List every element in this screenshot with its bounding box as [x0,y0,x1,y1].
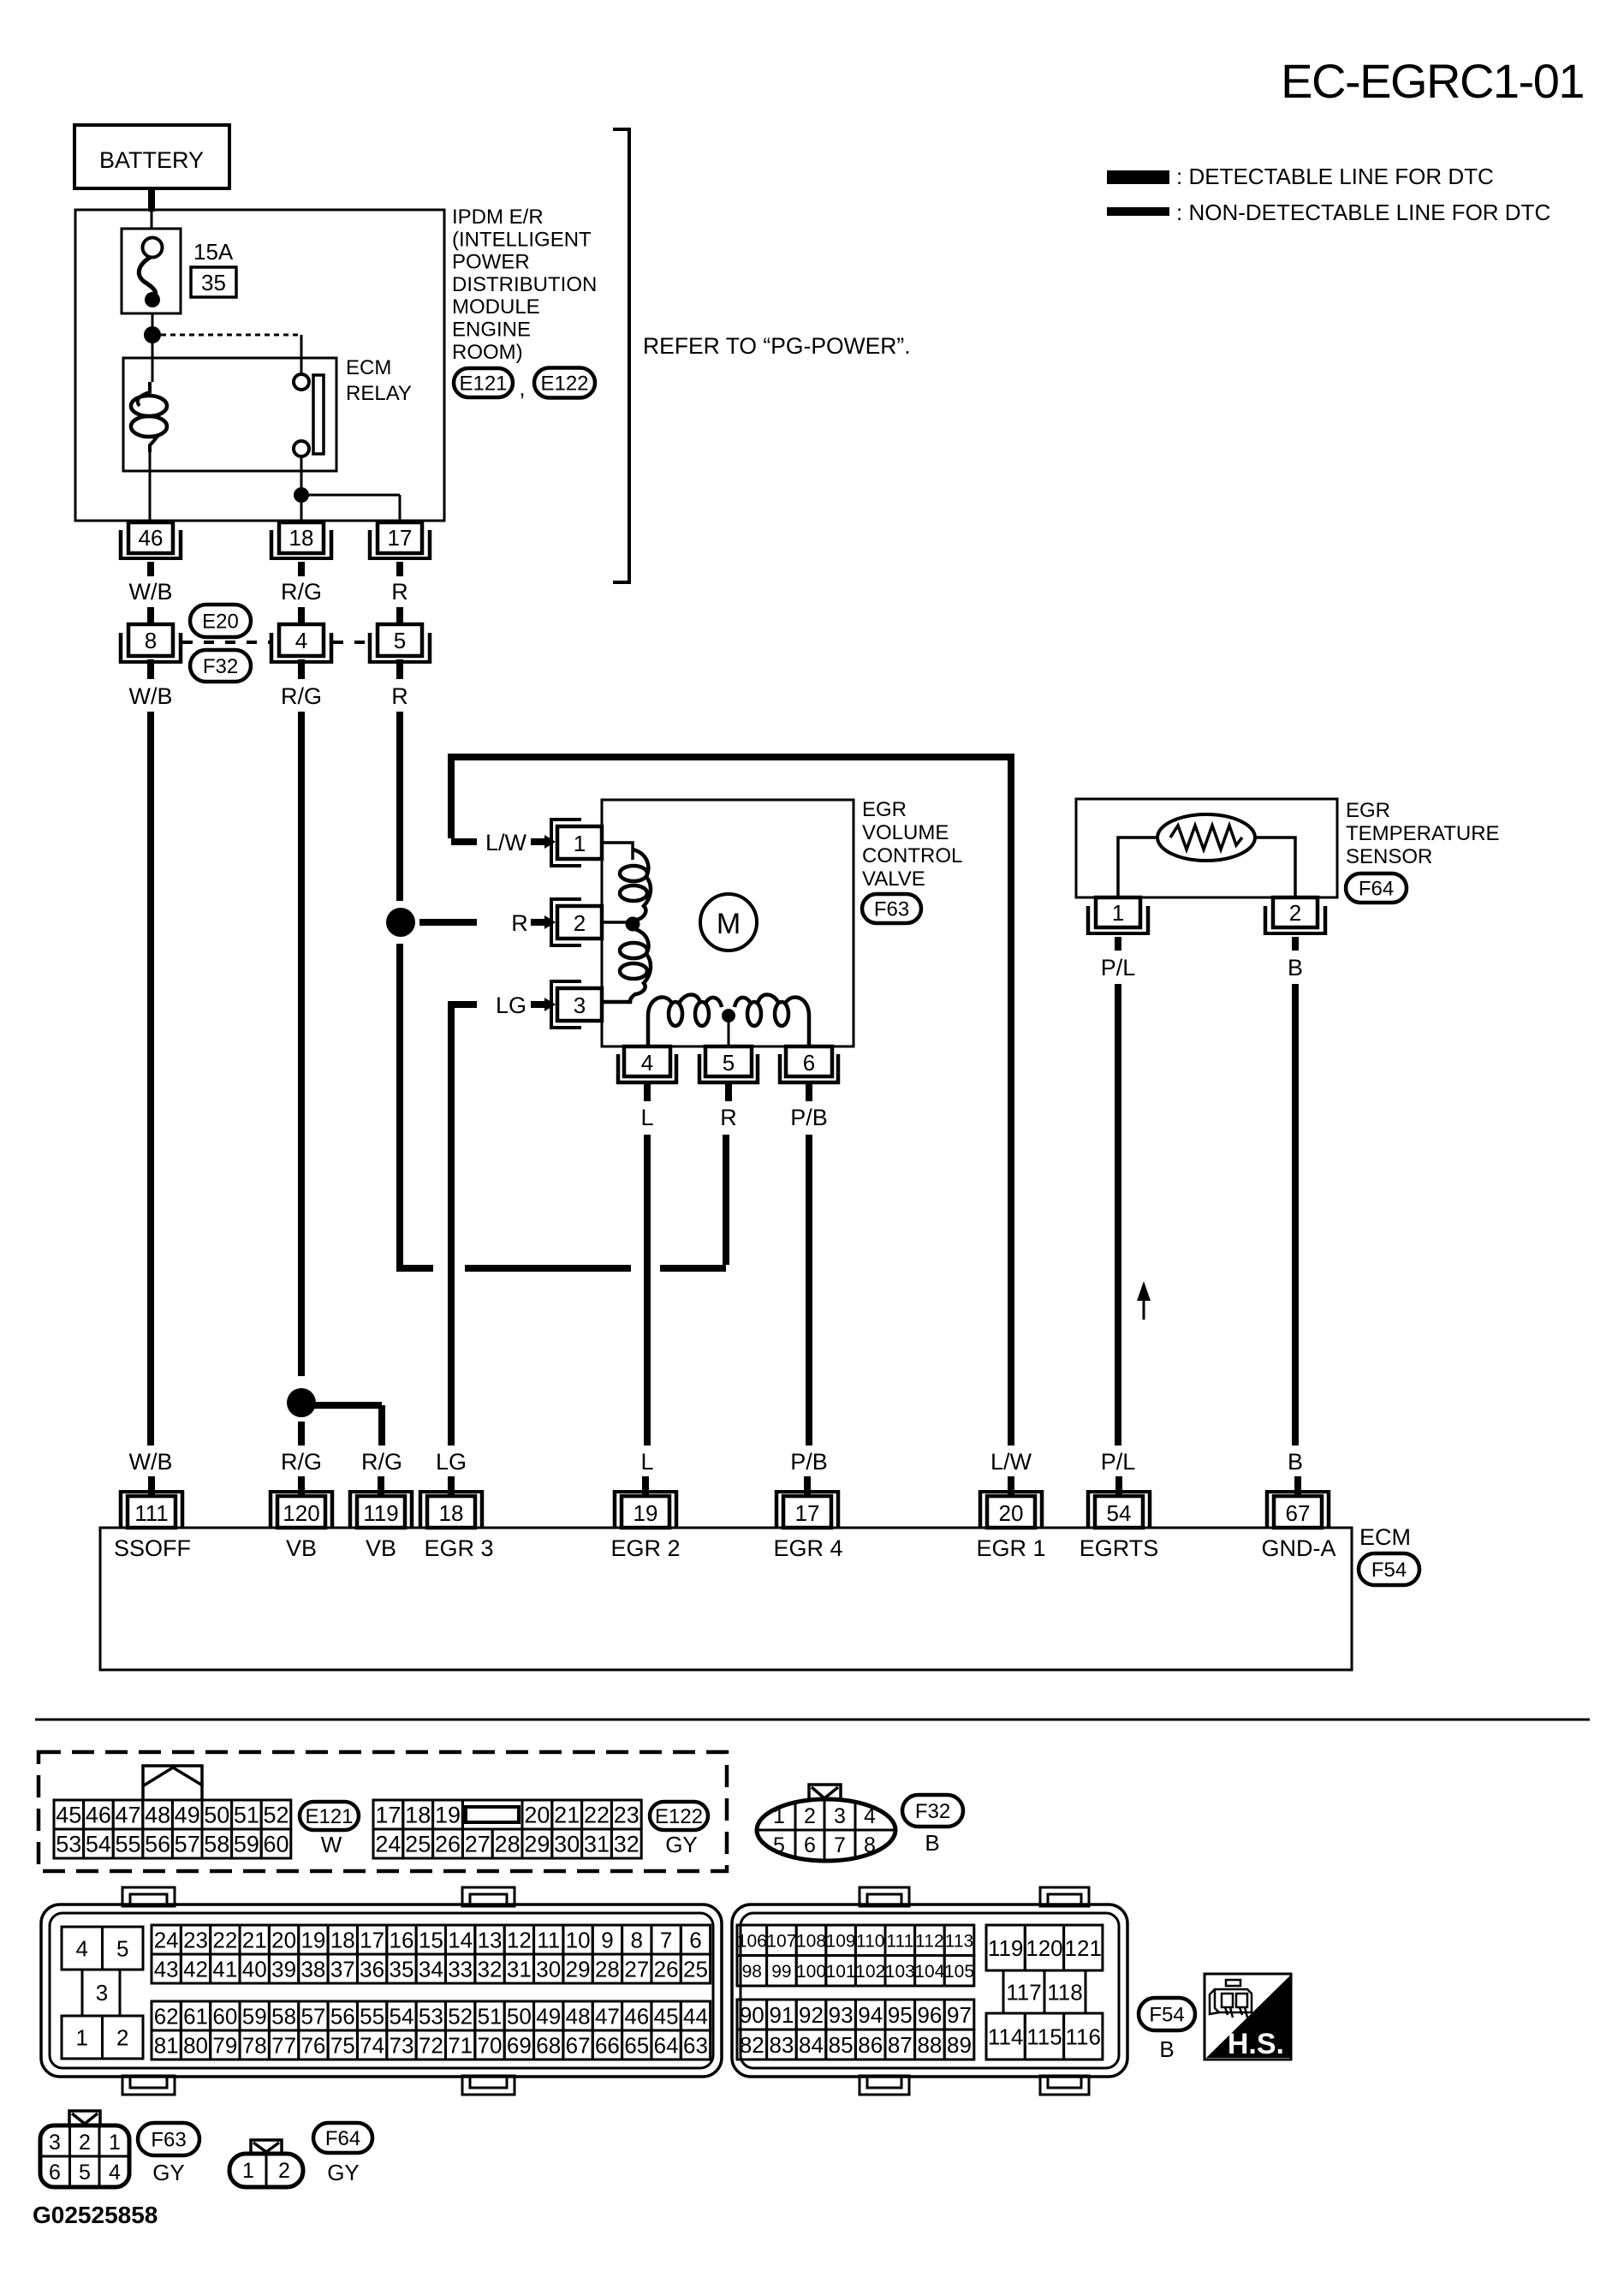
F54 view oval [1139,1998,1195,2030]
svg-text:24: 24 [154,1927,179,1952]
wire contact to junction B [300,456,303,488]
svg-text:14: 14 [448,1927,473,1952]
wire coil to pin46 [149,452,152,522]
svg-text:17: 17 [360,1927,384,1952]
svg-text:60: 60 [212,2003,237,2029]
svg-text:85: 85 [829,2032,854,2058]
svg-text:6: 6 [804,1833,816,1857]
sensor pin 1 [1086,897,1150,935]
svg-text:53: 53 [56,1832,81,1857]
svg-text:81: 81 [154,2032,179,2058]
svg-text:F32: F32 [203,655,238,678]
wire stub below sensor pin1 [1115,937,1121,951]
svg-text:23: 23 [183,1927,208,1952]
svg-text:46: 46 [139,525,164,551]
bracket refer pg-power [613,129,629,582]
svg-text:18: 18 [439,1500,464,1526]
ECM pin 120 [269,1490,334,1528]
svg-text:46: 46 [624,2003,649,2029]
valve wire pin2 stub [602,921,633,924]
svg-text:101: 101 [826,1962,856,1982]
legend non-detectable line bar [1107,207,1169,216]
F64 view oval [313,2123,372,2153]
F54 cells 117-118 [1003,1970,1086,2013]
ECM pin 18 [419,1490,484,1528]
valve pin 6 [778,1046,840,1084]
svg-text:B: B [1288,1449,1303,1475]
svg-text:109: 109 [826,1931,856,1951]
svg-text:15A: 15A [193,239,234,265]
valve wire pin1 to coil [602,843,633,860]
svg-text:GND-A: GND-A [1262,1535,1336,1561]
legend detectable line bar [1107,170,1169,184]
wire stub below pin46 [147,562,154,576]
svg-text:67: 67 [566,2032,591,2058]
arrow stub pin3 [531,1001,546,1008]
svg-text:120: 120 [283,1500,319,1526]
F54 grid B1 [737,1925,974,1956]
svg-text:10: 10 [566,1927,591,1952]
svg-text:5: 5 [79,2161,91,2185]
svg-text:35: 35 [390,1956,414,1982]
svg-text:79: 79 [212,2032,237,2058]
svg-text:116: 116 [1066,2024,1101,2049]
dashed line pin4-pin5 [333,641,367,644]
svg-text:4: 4 [295,628,307,653]
F54 grid A1 [152,1925,711,1983]
svg-text:F32: F32 [915,1800,950,1823]
F63 key shape [69,2111,100,2125]
wire stubs above ECM pins [152,1476,1298,1498]
svg-text:18: 18 [289,525,314,551]
svg-text:110: 110 [856,1931,884,1951]
arrow stub pin1 [531,838,546,845]
svg-text:17: 17 [375,1803,401,1828]
svg-text:118: 118 [1047,1979,1082,2005]
svg-text:POWER: POWER [452,251,530,274]
svg-text:5: 5 [773,1833,785,1857]
svg-text:: NON-DETECTABLE LINE FOR DTC: : NON-DETECTABLE LINE FOR DTC [1176,200,1550,225]
svg-text:91: 91 [769,2002,794,2028]
E121 key shape [143,1766,202,1799]
svg-text:83: 83 [769,2032,794,2058]
svg-text:ENGINE: ENGINE [452,319,531,342]
svg-text:60: 60 [263,1832,289,1857]
valve name text [862,798,962,891]
svg-text:4: 4 [864,1804,876,1828]
svg-text:23: 23 [614,1803,639,1828]
svg-text:97: 97 [947,2002,972,2028]
wire stub above pin4 [298,607,305,626]
svg-text:BATTERY: BATTERY [99,147,204,173]
svg-text:106: 106 [737,1931,767,1951]
svg-text:4: 4 [109,2161,121,2185]
svg-text:F54: F54 [1371,1559,1407,1582]
F54 cells 4-5 [62,1927,143,1970]
svg-text:30: 30 [554,1832,580,1857]
svg-text:VALVE: VALVE [862,867,925,891]
svg-text:16: 16 [390,1927,414,1952]
svg-text:45: 45 [654,2003,679,2029]
svg-text:28: 28 [495,1832,521,1857]
E121 pin grid [54,1800,291,1858]
svg-text:100: 100 [796,1962,826,1982]
svg-text:(INTELLIGENT: (INTELLIGENT [452,228,592,251]
svg-text:R: R [391,683,408,709]
svg-text:1: 1 [76,2024,88,2050]
wire to fuse [151,212,153,229]
valve motor M [700,894,757,951]
svg-text:78: 78 [242,2032,267,2058]
svg-text:W/B: W/B [129,1449,173,1475]
relay contact top [294,374,309,390]
wire junction B down [300,503,303,522]
F54 right tabs [860,1887,1089,2095]
svg-text:121: 121 [1065,1935,1102,1961]
svg-text:W/B: W/B [129,683,173,709]
IPDM pin 17 [368,522,431,560]
svg-text:57: 57 [300,2003,325,2029]
ECM pin 119 [348,1490,413,1528]
svg-text:VOLUME: VOLUME [862,821,949,844]
resistor ellipse [1157,814,1255,861]
svg-text:22: 22 [584,1803,610,1828]
svg-text:W: W [321,1832,342,1857]
ECM pin 20 [979,1490,1044,1528]
valve coil bottom left [648,995,722,1047]
svg-text:29: 29 [566,1956,591,1982]
svg-text:ECM: ECM [346,356,391,379]
svg-text:87: 87 [888,2032,913,2058]
svg-text:2: 2 [574,910,586,936]
wire stub above pin5 [396,607,403,626]
valve coil bottom right [735,995,809,1047]
wire stub below pin18 [298,562,305,576]
battery box [74,125,229,188]
svg-text:99: 99 [771,1962,791,1982]
loop bottom segment 3 [660,1265,726,1272]
svg-text:71: 71 [448,2032,473,2058]
svg-text:F63: F63 [151,2129,186,2152]
valve wire dot to pin5 [728,1022,730,1046]
svg-text:49: 49 [175,1803,200,1828]
resistor zigzag [1170,826,1242,849]
svg-text:L: L [640,1449,653,1475]
F54 right shell [732,1905,1127,2077]
svg-text:L/W: L/W [990,1449,1032,1475]
svg-text:E20: E20 [202,611,239,634]
F63 view body [40,2125,129,2187]
svg-text:ROOM): ROOM) [452,341,523,364]
wire stub below valve pin5 [725,1084,732,1101]
svg-text:5: 5 [723,1050,735,1076]
svg-text:59: 59 [242,2003,267,2029]
wire R/G below dot [298,1422,305,1446]
F64 view body [229,2154,303,2187]
svg-text:52: 52 [448,2003,473,2029]
wire stub below pin17 [396,562,403,576]
svg-text:F54: F54 [1149,2004,1184,2027]
IPDM pin 18 [270,522,333,560]
svg-text:30: 30 [536,1956,561,1982]
svg-text:32: 32 [478,1956,503,1982]
wire junction to relay coil [152,342,154,382]
svg-text:36: 36 [360,1956,384,1982]
svg-text:E122: E122 [540,373,588,396]
svg-text:46: 46 [86,1803,111,1828]
wire fuse to junction [152,313,154,327]
F32 view oval [902,1795,963,1827]
svg-text:GY: GY [152,2160,185,2185]
svg-text:108: 108 [796,1931,826,1951]
svg-text:H.S.: H.S. [1228,2028,1284,2060]
svg-text:27: 27 [465,1832,491,1857]
wire stub below pin5 [396,659,403,679]
svg-text:P/L: P/L [1101,1449,1136,1475]
svg-text:MODULE: MODULE [452,295,540,319]
svg-text:R: R [391,579,408,605]
loop bottom segment 1 [400,1265,433,1272]
svg-text:86: 86 [858,2032,883,2058]
arrow stub pin2 [531,919,546,926]
svg-text:37: 37 [330,1956,355,1982]
svg-text:40: 40 [242,1956,267,1982]
svg-text:48: 48 [566,2003,591,2029]
E122 view oval [650,1802,708,1830]
svg-text:55: 55 [360,2003,384,2029]
sensor internal wires [1118,838,1295,897]
svg-text:111: 111 [886,1931,913,1951]
svg-text:2: 2 [79,2131,91,2155]
svg-text:31: 31 [507,1956,532,1982]
svg-text:2: 2 [1289,900,1301,926]
junction dot A [144,326,161,343]
svg-text:94: 94 [858,2002,883,2028]
svg-text:1: 1 [242,2159,254,2183]
svg-text:25: 25 [405,1832,431,1857]
wire R/G branch [313,1402,382,1409]
svg-text:70: 70 [478,2032,503,2058]
junction dot R/G [287,1388,316,1417]
svg-text:9: 9 [601,1927,613,1952]
svg-text:F64: F64 [1359,878,1394,901]
svg-text:18: 18 [330,1927,355,1952]
valve pin 4 [616,1046,678,1084]
connector F54 oval [1359,1553,1419,1585]
svg-text:6: 6 [689,1927,701,1952]
valve coil lower [602,929,651,1002]
svg-text:15: 15 [419,1927,443,1952]
F54 cell 3 [81,1970,84,2016]
svg-text:RELAY: RELAY [346,382,412,405]
svg-text:8: 8 [145,628,157,653]
wire B long [1292,984,1299,1446]
svg-text:EC-EGRC1-01: EC-EGRC1-01 [1281,54,1584,108]
F32 key shape [809,1785,841,1800]
wire stub above pin8 [147,607,154,626]
svg-text:4: 4 [76,1935,88,1961]
svg-text:L/W: L/W [485,830,527,855]
ECM signal labels [114,1535,1336,1561]
wire L long [644,1135,651,1446]
relay coil [131,382,167,452]
svg-text:62: 62 [154,2003,179,2029]
svg-text:3: 3 [574,992,586,1018]
svg-text:M: M [717,908,741,940]
ECM box [100,1528,1352,1670]
svg-text:63: 63 [683,2032,708,2058]
svg-text:57: 57 [175,1832,200,1857]
svg-text:EGR: EGR [1346,799,1390,822]
svg-text:38: 38 [300,1956,325,1982]
fuse bottom dot [145,292,160,307]
junction dot R [386,908,415,937]
svg-text:24: 24 [375,1832,401,1857]
F54 left tabs [122,1887,515,2095]
F63 view numbers [49,2131,121,2185]
wire stub below sensor pin2 [1292,937,1299,951]
svg-text:55: 55 [115,1832,140,1857]
svg-text:EGR 3: EGR 3 [424,1535,493,1561]
valve coil upper [620,849,651,920]
valve coil junction dot [722,1009,735,1022]
svg-text:3: 3 [834,1804,846,1828]
svg-text:R/G: R/G [281,683,322,709]
connector F63 oval [862,894,921,923]
wire R/G long [298,712,305,1376]
E122 key slot [466,1807,519,1822]
svg-text:61: 61 [183,2003,208,2029]
svg-text:E122: E122 [655,1805,703,1828]
svg-text:64: 64 [654,2032,679,2058]
svg-text:102: 102 [855,1962,885,1982]
svg-text:105: 105 [944,1962,974,1982]
wire color labels row [129,1449,1304,1475]
svg-text:28: 28 [595,1956,620,1982]
svg-text:EGR: EGR [862,798,907,821]
svg-text:41: 41 [212,1956,237,1982]
svg-text:5: 5 [394,628,406,653]
svg-text:LG: LG [496,992,526,1018]
wire R stub to valve pin2 [419,919,477,926]
F54 cells 114-116 [986,2013,1103,2060]
valve pin 1 [551,820,602,866]
wire top loop [451,757,1011,1446]
svg-text:56: 56 [330,2003,355,2029]
svg-text:45: 45 [56,1803,81,1828]
svg-text:R: R [511,910,528,936]
svg-text:2: 2 [278,2159,290,2183]
svg-text:92: 92 [799,2002,824,2028]
svg-text:51: 51 [234,1803,259,1828]
svg-text:29: 29 [524,1832,550,1857]
ECM pin 19 [613,1490,678,1528]
svg-text:4: 4 [641,1050,653,1076]
svg-text:B: B [1288,955,1303,981]
F54 cells 119-121 [986,1925,1103,1970]
svg-text:52: 52 [263,1803,289,1828]
wire stub below valve pin6 [806,1084,812,1101]
valve box [602,800,854,1046]
F32 view body [757,1799,895,1861]
svg-text:1: 1 [574,831,586,856]
svg-text:90: 90 [740,2002,764,2028]
svg-text:6: 6 [49,2161,61,2185]
F54 left shell [41,1905,722,2077]
svg-text:R/G: R/G [281,1449,322,1475]
svg-text:R: R [720,1105,737,1130]
svg-text:54: 54 [86,1832,111,1857]
svg-text:SSOFF: SSOFF [114,1535,191,1561]
svg-text:112: 112 [915,1931,943,1951]
ECM pin 54 [1086,1490,1151,1528]
svg-text:117: 117 [1006,1979,1041,2005]
svg-text:3: 3 [49,2131,61,2155]
svg-text:: DETECTABLE LINE FOR DTC: : DETECTABLE LINE FOR DTC [1176,164,1494,189]
svg-text:TEMPERATURE: TEMPERATURE [1346,822,1500,845]
svg-text:DISTRIBUTION: DISTRIBUTION [452,273,597,296]
svg-text:E121: E121 [305,1805,353,1828]
svg-text:80: 80 [183,2032,208,2058]
F54 grid B2 [737,2000,974,2060]
svg-text:89: 89 [947,2032,972,2058]
E121 view oval [300,1802,359,1830]
svg-text:3: 3 [96,1980,108,2006]
svg-text:1: 1 [1112,900,1124,926]
svg-text:7: 7 [834,1833,846,1857]
svg-text:2: 2 [804,1804,816,1828]
wire stub below pin8 [147,659,154,679]
svg-text:R/G: R/G [281,579,322,605]
svg-text:IPDM E/R: IPDM E/R [452,206,544,229]
svg-text:69: 69 [507,2032,532,2058]
svg-text:GY: GY [665,1832,698,1857]
dashed group box [39,1752,727,1871]
svg-text:EGR 4: EGR 4 [773,1535,842,1561]
svg-text:19: 19 [435,1803,461,1828]
svg-text:66: 66 [595,2032,620,2058]
svg-text:1: 1 [109,2131,121,2155]
svg-text:20: 20 [999,1500,1024,1526]
connector F64 oval [1346,873,1407,903]
svg-text:42: 42 [183,1956,208,1982]
svg-text:34: 34 [419,1956,443,1982]
svg-text:LG: LG [436,1449,467,1475]
svg-text:18: 18 [405,1803,431,1828]
svg-text:56: 56 [145,1832,170,1857]
svg-text:SENSOR: SENSOR [1346,845,1432,868]
svg-text:98: 98 [742,1962,762,1982]
relay contact bottom [294,441,309,456]
fuse circle [143,238,163,258]
connector E122 oval [534,368,595,398]
svg-text:P/B: P/B [790,1105,828,1130]
relay armature bar [313,375,324,454]
svg-text:REFER TO “PG-POWER”.: REFER TO “PG-POWER”. [643,333,911,359]
svg-text:17: 17 [388,525,413,551]
svg-text:82: 82 [740,2032,764,2058]
svg-text:P/L: P/L [1101,955,1136,981]
svg-text:20: 20 [271,1927,296,1952]
wire L/W stub [451,838,477,845]
svg-text:104: 104 [914,1962,944,1982]
wire P/B long [806,1135,812,1446]
svg-text:7: 7 [660,1927,672,1952]
svg-text:58: 58 [271,2003,296,2029]
sensor pin 2 [1264,897,1327,935]
svg-text:21: 21 [554,1803,580,1828]
ECM pin 17 [775,1490,840,1528]
